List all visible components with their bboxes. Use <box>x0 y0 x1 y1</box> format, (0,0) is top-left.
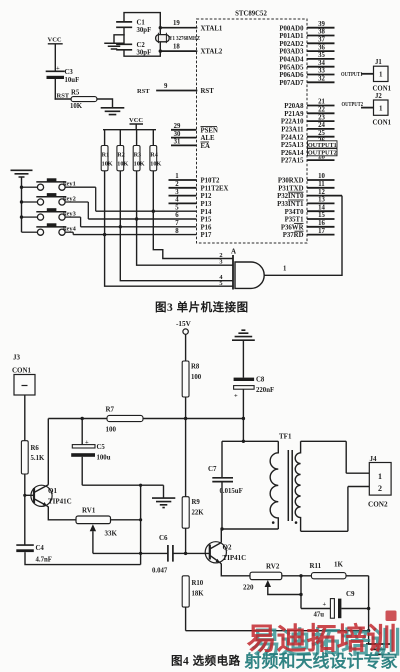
resistor R11 1K <box>310 561 369 644</box>
svg-text:14: 14 <box>318 204 325 211</box>
svg-text:C3: C3 <box>65 69 74 76</box>
svg-text:J4: J4 <box>370 455 378 463</box>
svg-text:36: 36 <box>318 44 325 51</box>
U1 right pin labels <box>277 25 304 239</box>
capacitor C2 <box>117 42 151 57</box>
svg-text:0.047: 0.047 <box>152 568 168 575</box>
svg-text:P15: P15 <box>201 217 213 224</box>
connector J4 CON2 <box>368 455 391 509</box>
svg-text:220: 220 <box>243 584 254 592</box>
svg-text:P24A12: P24A12 <box>281 134 304 141</box>
svg-text:17: 17 <box>318 228 325 235</box>
svg-text:P01AD1: P01AD1 <box>279 33 304 40</box>
svg-text:P31TXD: P31TXD <box>278 185 303 192</box>
svg-text:25: 25 <box>318 130 325 137</box>
net label OUTPUT2 (P2.6) <box>308 149 338 157</box>
svg-text:CON1: CON1 <box>373 86 392 93</box>
resistor R10 18K <box>182 576 204 631</box>
svg-text:P17: P17 <box>201 232 213 239</box>
svg-text:37: 37 <box>318 37 325 44</box>
svg-text:VCC: VCC <box>129 117 143 124</box>
svg-text:+: + <box>56 65 60 72</box>
svg-text:CON2: CON2 <box>368 501 388 509</box>
connector J1 CON1 <box>341 59 392 93</box>
svg-text:5: 5 <box>175 204 179 211</box>
resistor R7 100 <box>106 406 144 434</box>
svg-text:PSEN: PSEN <box>201 127 218 134</box>
svg-text:图4 选频电路: 图4 选频电路 <box>171 654 241 668</box>
svg-text:A: A <box>231 248 236 256</box>
U1 right pin stubs P0 <box>307 28 342 235</box>
svg-text:key2: key2 <box>63 196 76 203</box>
svg-text:10K: 10K <box>150 161 161 168</box>
svg-text:3: 3 <box>175 189 179 196</box>
capacitor C8 220nF <box>234 377 275 442</box>
svg-text:16: 16 <box>318 220 325 227</box>
wire secondary to J4 <box>301 441 370 473</box>
svg-text:EA: EA <box>201 143 211 150</box>
capacitor C7 0.015uF <box>208 465 243 495</box>
svg-text:P11T2EX: P11T2EX <box>201 185 229 192</box>
capacitor C3 <box>47 65 80 99</box>
svg-text:18K: 18K <box>192 591 205 598</box>
svg-text:10K: 10K <box>134 161 145 168</box>
potentiometer RV2 220 <box>243 563 311 595</box>
svg-text:100: 100 <box>106 426 117 434</box>
svg-text:C9: C9 <box>346 590 355 598</box>
svg-text:P27A15: P27A15 <box>281 158 304 165</box>
svg-text:5: 5 <box>219 280 222 287</box>
svg-text:J1: J1 <box>375 59 382 66</box>
svg-text:XTAL1: XTAL1 <box>201 25 223 32</box>
svg-text:P23A11: P23A11 <box>281 127 304 134</box>
svg-text:RST: RST <box>137 88 150 95</box>
svg-text:R4: R4 <box>150 152 158 159</box>
svg-text:33: 33 <box>318 68 325 75</box>
switch key4 <box>22 223 77 235</box>
svg-text:key4: key4 <box>63 226 77 233</box>
svg-text:P20A8: P20A8 <box>284 103 304 110</box>
resistor R8 100 <box>182 361 202 497</box>
svg-text:10K: 10K <box>70 103 83 110</box>
power -15V <box>176 320 192 361</box>
svg-text:R3: R3 <box>134 152 142 159</box>
svg-text:CON1: CON1 <box>12 367 32 375</box>
svg-text:P30RXD: P30RXD <box>278 178 304 185</box>
svg-text:R2: R2 <box>117 152 125 159</box>
svg-text:OUTPUT1: OUTPUT1 <box>308 142 337 149</box>
svg-text:P00AD0: P00AD0 <box>279 25 304 32</box>
svg-text:100u: 100u <box>97 455 111 462</box>
capacitor C6 0.047 <box>152 534 187 575</box>
svg-text:100: 100 <box>191 374 202 381</box>
wire Q1 base <box>23 494 34 497</box>
svg-text:P33INT1: P33INT1 <box>277 201 304 208</box>
svg-text:P12: P12 <box>201 193 213 200</box>
svg-text:1: 1 <box>379 71 383 79</box>
svg-text:P32INT0: P32INT0 <box>277 193 304 200</box>
svg-text:TF1: TF1 <box>279 433 292 441</box>
svg-text:220nF: 220nF <box>256 387 274 394</box>
svg-text:P37RD: P37RD <box>283 232 304 239</box>
svg-text:P25A13: P25A13 <box>281 142 304 149</box>
transformer TF1 <box>220 433 300 532</box>
svg-text:Q1: Q1 <box>48 487 57 495</box>
svg-text:0.015uF: 0.015uF <box>220 488 243 495</box>
wire crystal left rail <box>124 13 160 57</box>
svg-text:31: 31 <box>174 139 181 146</box>
svg-text:+: + <box>234 393 238 400</box>
ground (output) <box>366 644 390 654</box>
ground (after R5) <box>102 108 124 115</box>
svg-text:key3: key3 <box>63 211 76 218</box>
wire node A (wiper line) <box>93 552 168 554</box>
svg-text:C7: C7 <box>208 465 217 473</box>
svg-text:21: 21 <box>318 99 325 106</box>
svg-text:5.1K: 5.1K <box>31 455 45 462</box>
wire XTAL1 pin 19 <box>159 20 197 29</box>
svg-text:1: 1 <box>175 173 179 180</box>
power VCC (reset) <box>48 37 63 71</box>
svg-text:18: 18 <box>173 43 180 50</box>
resistor R9 22K <box>182 497 204 554</box>
svg-text:12: 12 <box>318 189 325 196</box>
svg-text:+: + <box>323 601 327 608</box>
power VCC (pull-ups) <box>129 117 143 130</box>
svg-text:RST: RST <box>201 88 215 95</box>
connector J3 CON1 <box>12 354 35 441</box>
wire bottom rail <box>186 630 369 632</box>
svg-text:射频和天线设计专家: 射频和天线设计专家 <box>244 651 398 671</box>
watermark logo mark <box>386 611 397 622</box>
wire gate input 2 (from R4) <box>153 211 233 258</box>
switch key1 <box>20 178 96 211</box>
IC U1 STC89C52 <box>197 11 308 244</box>
svg-text:TIP41C: TIP41C <box>48 498 72 506</box>
svg-text:CON1: CON1 <box>373 119 392 126</box>
svg-text:R10: R10 <box>192 580 204 587</box>
wire P1.4-P1.7 rows <box>73 211 196 234</box>
svg-text:24: 24 <box>318 122 325 129</box>
svg-text:R11: R11 <box>310 562 322 570</box>
switch key3 <box>20 208 81 227</box>
net label OUTPUT1 (P2.5) <box>308 141 338 149</box>
resistor R3 10K <box>133 130 145 219</box>
wire Q2 base <box>186 552 210 554</box>
svg-text:10K: 10K <box>102 161 113 168</box>
svg-text:RV1: RV1 <box>82 507 96 515</box>
svg-text:3: 3 <box>219 259 222 266</box>
svg-text:9: 9 <box>164 83 168 90</box>
svg-text:6: 6 <box>175 212 179 219</box>
svg-text:P04AD4: P04AD4 <box>279 57 304 64</box>
capacitor C5 100u <box>71 417 163 498</box>
svg-text:22: 22 <box>318 107 325 114</box>
ground (crystal) <box>105 35 124 49</box>
svg-text:C4: C4 <box>36 545 45 552</box>
svg-text:Y1 32768MHZ: Y1 32768MHZ <box>169 36 200 42</box>
wire gate input 3 (from R3) <box>137 219 233 265</box>
ground (C8, inverted) <box>232 330 255 377</box>
svg-text:P22A10: P22A10 <box>281 119 304 126</box>
switch key2 <box>20 193 89 219</box>
svg-text:C2: C2 <box>137 42 146 49</box>
svg-text:22K: 22K <box>192 510 205 517</box>
svg-text:35: 35 <box>318 52 325 59</box>
svg-text:2: 2 <box>378 484 382 493</box>
svg-text:R6: R6 <box>31 445 40 452</box>
svg-text:30: 30 <box>174 131 181 138</box>
svg-text:J3: J3 <box>13 354 21 362</box>
svg-text:30pF: 30pF <box>137 49 152 56</box>
svg-text:33K: 33K <box>105 530 118 538</box>
svg-text:38: 38 <box>318 29 325 36</box>
svg-text:15: 15 <box>318 212 325 219</box>
resistor R2 10K <box>117 130 129 227</box>
svg-text:P10T2: P10T2 <box>201 178 220 185</box>
svg-text:P06AD6: P06AD6 <box>279 72 304 79</box>
svg-text:11: 11 <box>318 181 325 188</box>
svg-text:47u: 47u <box>314 612 325 619</box>
U1 left pin stubs <box>169 130 197 204</box>
svg-text:32: 32 <box>318 76 325 83</box>
svg-text:34: 34 <box>318 60 325 67</box>
svg-text:2: 2 <box>175 181 179 188</box>
transistor Q2 TIP41C <box>205 529 250 576</box>
svg-text:R9: R9 <box>192 499 201 506</box>
svg-text:STC89C52: STC89C52 <box>235 11 267 18</box>
svg-text:1: 1 <box>379 104 383 112</box>
svg-text:P16: P16 <box>201 224 213 231</box>
resistor R6 5.1K <box>21 441 45 545</box>
svg-text:J2: J2 <box>375 93 382 100</box>
svg-text:C1: C1 <box>137 20 146 27</box>
wire gate input 5 (from R1) <box>105 235 233 287</box>
svg-text:OUTPUT1: OUTPUT1 <box>341 71 363 78</box>
svg-text:R5: R5 <box>71 90 80 97</box>
wire main rail y418.5 <box>48 418 243 420</box>
connector J2 CON1 <box>342 93 392 126</box>
svg-text:23: 23 <box>318 114 325 121</box>
svg-text:key1: key1 <box>63 181 76 188</box>
svg-text:易迪拓培训: 易迪拓培训 <box>247 622 397 656</box>
svg-text:P02AD2: P02AD2 <box>279 41 304 48</box>
svg-text:30pF: 30pF <box>137 27 152 34</box>
svg-text:1K: 1K <box>334 561 344 569</box>
svg-text:-15V: -15V <box>176 320 192 328</box>
wire RST pin 9 <box>137 83 197 95</box>
node junction dots (rows x resistor columns) <box>103 210 155 237</box>
svg-text:29: 29 <box>174 123 181 130</box>
ground (C5) <box>152 498 175 508</box>
svg-text:P34T0: P34T0 <box>285 209 304 216</box>
svg-text:图3 单片机连接图: 图3 单片机连接图 <box>155 300 249 314</box>
crystal Y1 <box>156 33 201 42</box>
svg-text:P05AD5: P05AD5 <box>279 64 304 71</box>
resistor R5 <box>55 90 112 111</box>
svg-text:P35T1: P35T1 <box>285 217 304 224</box>
U1 left pin labels <box>201 25 229 239</box>
potentiometer RV1 33K <box>76 507 141 554</box>
wire C9 branch vertical <box>299 574 302 608</box>
svg-text:RV2: RV2 <box>266 563 280 571</box>
svg-text:10K: 10K <box>117 161 128 168</box>
svg-text:P03AD3: P03AD3 <box>279 49 304 56</box>
svg-text:10uF: 10uF <box>65 77 80 84</box>
svg-text:Q2: Q2 <box>223 544 232 552</box>
svg-text:P21A9: P21A9 <box>284 111 304 118</box>
svg-text:TIP41C: TIP41C <box>223 554 247 562</box>
svg-text:C8: C8 <box>256 377 265 384</box>
wire gate output 1 to P3.2 <box>264 196 342 276</box>
svg-text:P13: P13 <box>201 201 213 208</box>
svg-text:XTAL2: XTAL2 <box>201 49 223 56</box>
svg-text:OUTPUT2: OUTPUT2 <box>308 150 337 157</box>
capacitor C1 <box>117 20 151 35</box>
svg-text:39: 39 <box>318 21 325 28</box>
svg-text:13: 13 <box>318 197 325 204</box>
wire gate input 4 (from R2) <box>120 227 233 281</box>
svg-text:7: 7 <box>175 220 179 227</box>
svg-text:P07AD7: P07AD7 <box>279 80 304 87</box>
svg-text:4: 4 <box>175 197 179 204</box>
ground (keys) <box>11 170 33 232</box>
svg-text:8: 8 <box>175 228 179 235</box>
svg-text:VCC: VCC <box>48 37 62 44</box>
svg-text:C5: C5 <box>97 444 106 451</box>
svg-text:ALE: ALE <box>201 135 215 142</box>
svg-text:1: 1 <box>283 266 287 273</box>
resistor R4 10K <box>150 130 162 212</box>
capacitor C4 4.7nF <box>16 545 140 565</box>
svg-text:P26A14: P26A14 <box>281 150 304 157</box>
svg-text:R7: R7 <box>106 406 115 414</box>
wire vertical junction x140.6 <box>139 484 142 565</box>
capacitor C9 47u <box>301 590 370 632</box>
svg-text:R1: R1 <box>102 152 110 159</box>
svg-text:19: 19 <box>173 20 180 27</box>
wire VCC rail <box>103 129 156 131</box>
svg-text:P36WR: P36WR <box>281 224 304 231</box>
transistor Q1 TIP41C <box>31 419 76 520</box>
svg-text:OUTPUT2: OUTPUT2 <box>342 101 364 108</box>
AND gate A <box>219 248 264 290</box>
svg-text:C6: C6 <box>159 534 168 542</box>
resistor R1 10K <box>101 130 113 235</box>
svg-text:R8: R8 <box>191 364 200 371</box>
svg-text:4.7nF: 4.7nF <box>36 557 52 564</box>
svg-text:P14: P14 <box>201 209 213 216</box>
wire XTAL2 pin 18 <box>159 43 197 52</box>
svg-text:1: 1 <box>378 472 382 481</box>
svg-text:10: 10 <box>318 173 325 180</box>
svg-text:+: + <box>85 439 89 446</box>
